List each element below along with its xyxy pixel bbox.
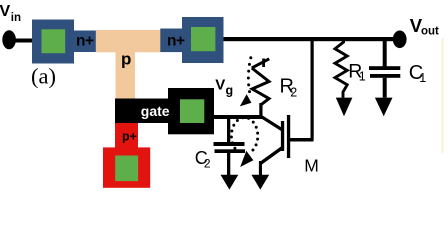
svg-text:n+: n+ [76, 33, 94, 50]
svg-text:(a): (a) [31, 64, 56, 89]
svg-text:V: V [0, 3, 11, 20]
svg-text:p+: p+ [122, 130, 137, 144]
svg-text:gate: gate [141, 103, 170, 119]
svg-text:in: in [11, 12, 21, 24]
svg-text:p: p [121, 50, 131, 69]
svg-text:n+: n+ [167, 33, 185, 50]
svg-text:M: M [304, 155, 319, 175]
svg-text:out: out [421, 26, 439, 38]
svg-text:1: 1 [359, 69, 366, 83]
svg-text:g: g [226, 84, 234, 98]
svg-text:V: V [215, 76, 225, 93]
svg-text:2: 2 [204, 156, 211, 170]
svg-text:2: 2 [290, 85, 297, 99]
svg-text:1: 1 [419, 71, 426, 85]
